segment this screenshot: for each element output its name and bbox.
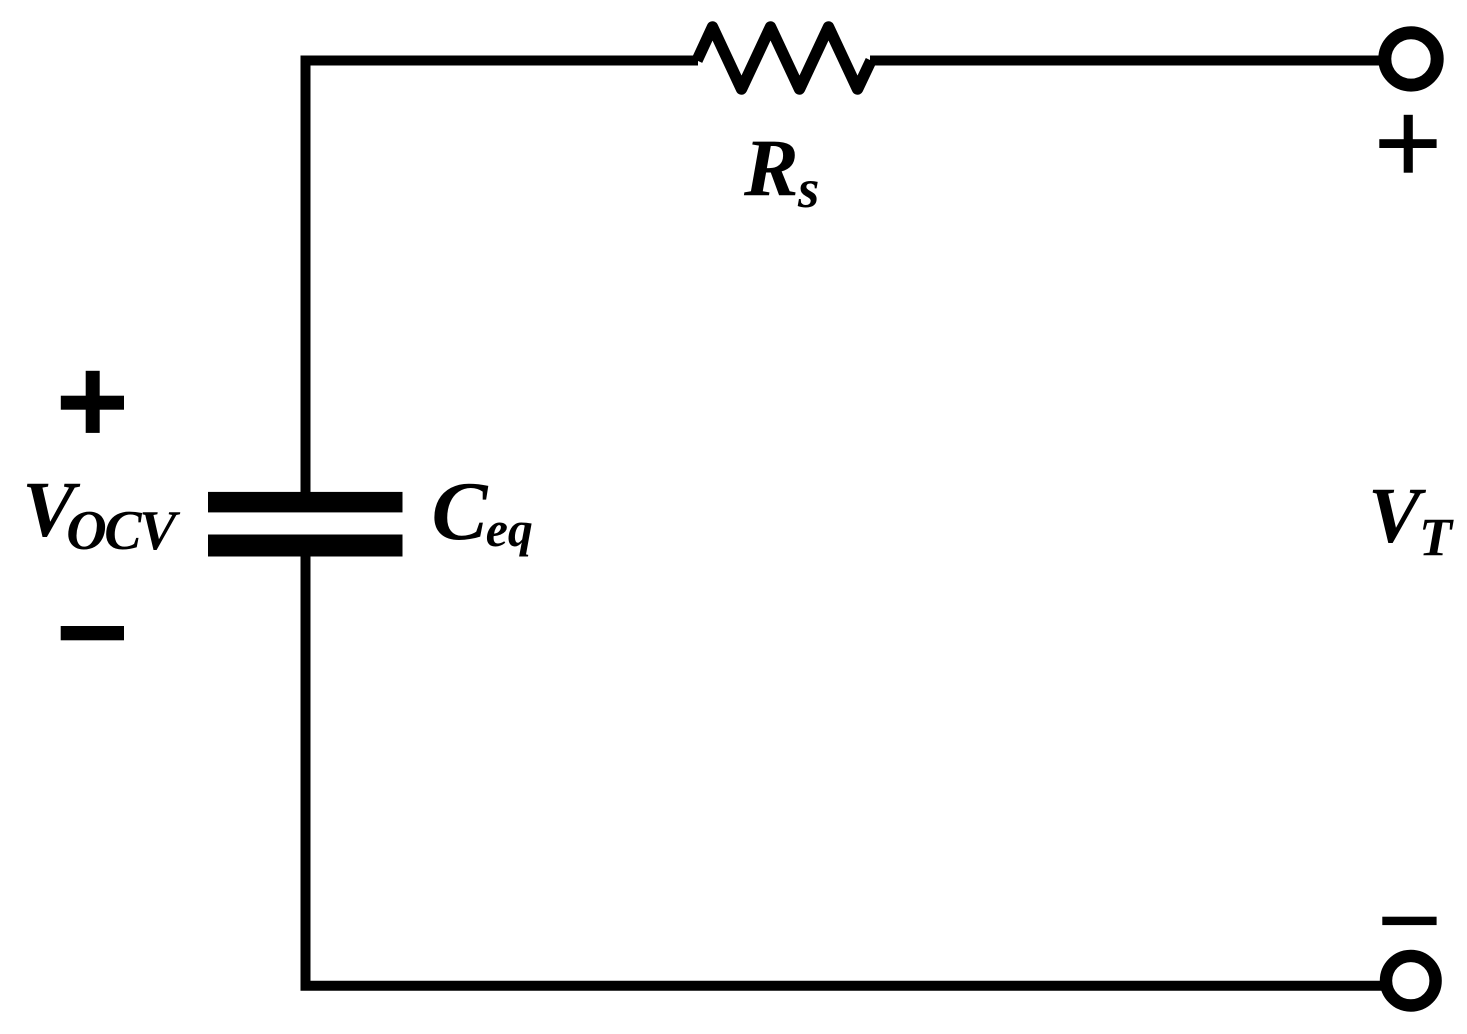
capacitor Ceq bottom plate <box>208 535 403 557</box>
terminal circle top-right <box>1385 33 1437 85</box>
resistor Rs zigzag <box>697 27 871 89</box>
svg-text:eq: eq <box>486 501 533 557</box>
minus sign left (Vocv polarity) <box>61 626 124 640</box>
capacitor Ceq top plate <box>208 492 403 513</box>
svg-text:C: C <box>432 465 489 558</box>
minus sign right (VT polarity) <box>1382 917 1436 925</box>
plus sign right (VT polarity) <box>1379 115 1436 173</box>
wire: resistor to top-right terminal <box>870 56 1384 66</box>
svg-text:T: T <box>1419 507 1454 567</box>
svg-text:R: R <box>743 122 799 213</box>
plus sign left (Vocv polarity) <box>61 371 124 433</box>
wire: bottom-left corner and bottom horizontal <box>306 555 1385 986</box>
wire: left vertical + top horizontal to resistor <box>306 61 699 494</box>
svg-text:s: s <box>797 158 819 219</box>
terminal circle bottom-right <box>1386 956 1436 1006</box>
svg-text:OCV: OCV <box>66 500 181 562</box>
